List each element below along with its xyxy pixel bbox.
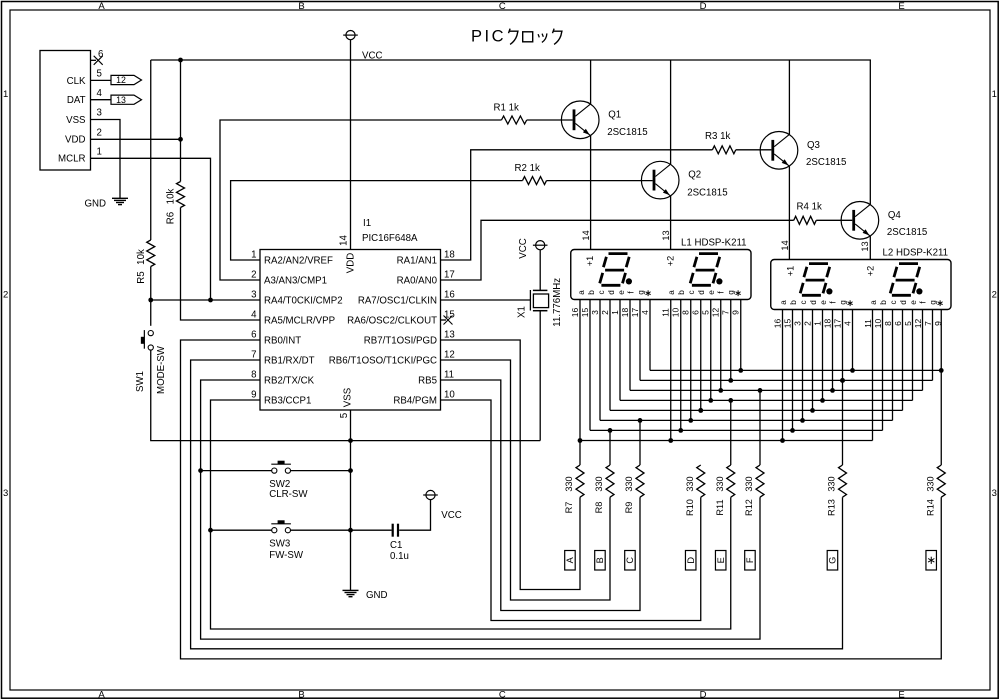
svg-text:+1: +1 — [585, 256, 595, 266]
svg-text:7: 7 — [721, 310, 731, 315]
svg-text:F: F — [745, 557, 755, 563]
svg-text:RA7/OSC1/CLKIN: RA7/OSC1/CLKIN — [358, 296, 437, 307]
power VCC xtal — [536, 241, 545, 250]
svg-text:12: 12 — [116, 75, 126, 85]
wire bus f to R12 — [759, 390, 761, 465]
junction SW2 VSS — [348, 468, 353, 473]
svg-text:R11: R11 — [715, 499, 725, 515]
wire RA2 to R2 — [231, 181, 523, 260]
svg-text:g: g — [838, 300, 847, 305]
wire VSS to ground — [91, 120, 121, 199]
svg-text:2: 2 — [992, 290, 997, 301]
power VCC top — [346, 30, 355, 39]
wire pin6 stub — [91, 59, 97, 61]
svg-text:13: 13 — [661, 230, 671, 240]
svg-text:MODE-SW: MODE-SW — [156, 345, 167, 394]
wire SW3 left — [211, 529, 272, 531]
svg-text:e: e — [819, 300, 828, 305]
wire Q1 emitter to L1 pin14 — [590, 136, 592, 250]
svg-text:+1: +1 — [786, 266, 796, 276]
svg-text:CLK: CLK — [67, 76, 86, 87]
svg-text:D: D — [700, 1, 707, 12]
display L1 HDSP-K211 — [571, 250, 751, 300]
svg-text:e: e — [909, 300, 918, 305]
svg-text:18: 18 — [620, 308, 630, 318]
svg-text:g: g — [726, 290, 735, 295]
labels L1 pin numbers — [570, 308, 741, 318]
wire RB1 col — [191, 360, 843, 649]
capacitor C1 — [392, 524, 394, 537]
svg-text:12: 12 — [913, 319, 923, 329]
wire RA0 to R4 — [441, 220, 794, 280]
junction bus a R7 — [578, 438, 583, 443]
svg-text:18: 18 — [822, 319, 832, 329]
svg-text:RA4/T0CKI/CMP2: RA4/T0CKI/CMP2 — [264, 296, 343, 307]
svg-text:10: 10 — [671, 308, 681, 318]
svg-text:10: 10 — [873, 319, 883, 329]
wire DAT pin4 — [91, 99, 112, 101]
switch SW1 — [148, 331, 153, 336]
svg-text:4: 4 — [640, 310, 650, 315]
svg-text:e: e — [707, 290, 716, 295]
svg-text:b: b — [879, 300, 888, 305]
junction R6 rail — [178, 58, 183, 63]
svg-text:17: 17 — [444, 270, 455, 281]
svg-text:X1: X1 — [516, 306, 527, 318]
svg-text:B: B — [298, 1, 304, 12]
wire SW1 to gnd rail — [151, 350, 540, 441]
switch SW2 — [272, 468, 277, 473]
junction bus b R8 — [608, 428, 613, 433]
wire segment bus d — [610, 409, 903, 411]
svg-text:R13: R13 — [827, 499, 837, 516]
svg-text:R2 1k: R2 1k — [515, 163, 540, 174]
wire Q2 emitter to L1 pin13 — [670, 196, 672, 250]
svg-text:RB2/TX/CK: RB2/TX/CK — [264, 376, 315, 387]
svg-text:R10: R10 — [685, 499, 695, 516]
wire RA4 net — [151, 299, 260, 301]
svg-text:g: g — [636, 290, 645, 295]
svg-text:PIC: PIC — [471, 27, 506, 45]
wire R4 to Q4 base — [816, 219, 852, 221]
svg-text:1: 1 — [812, 321, 822, 326]
svg-text:L1 HDSP-K211: L1 HDSP-K211 — [681, 238, 747, 249]
resistor R4 — [794, 216, 817, 224]
svg-text:R7: R7 — [564, 502, 574, 514]
resistor R12 — [756, 465, 764, 497]
svg-text:MCLR: MCLR — [58, 154, 85, 165]
resistor R6 — [177, 182, 185, 208]
wire VCC to C1 — [399, 500, 430, 531]
svg-text:330: 330 — [685, 476, 695, 491]
svg-text:VSS: VSS — [66, 115, 86, 126]
svg-text:2: 2 — [97, 128, 102, 139]
resistor R13 — [839, 465, 847, 497]
svg-text:Q1: Q1 — [608, 109, 621, 120]
svg-text:+2: +2 — [666, 256, 676, 266]
svg-text:17: 17 — [832, 319, 842, 329]
svg-text:R14: R14 — [925, 499, 935, 516]
svg-text:3: 3 — [97, 108, 102, 119]
junction RB3 SW3 — [208, 528, 213, 533]
svg-text:RB1/RX/DT: RB1/RX/DT — [264, 356, 315, 367]
wire A3 to R1 — [220, 120, 502, 280]
wire bus c to R9 — [639, 420, 641, 465]
svg-text:7: 7 — [251, 350, 256, 361]
svg-text:330: 330 — [827, 476, 837, 491]
svg-text:3: 3 — [992, 488, 997, 499]
port * — [926, 551, 937, 571]
connector CN1 — [40, 51, 91, 171]
wire segment bus a — [580, 440, 873, 442]
svg-text:5: 5 — [339, 413, 350, 418]
svg-text:2: 2 — [802, 321, 812, 326]
svg-text:E: E — [716, 557, 726, 563]
ground GND1 — [112, 197, 128, 199]
power VCC c1 — [426, 490, 435, 499]
junctions L2 digit1 — [780, 368, 855, 443]
svg-text:RA6/OSC2/CLKOUT: RA6/OSC2/CLKOUT — [347, 316, 437, 327]
svg-text:VSS: VSS — [343, 387, 354, 407]
wire bus b to R8 — [609, 430, 611, 465]
wire pin5 VSS down — [350, 410, 352, 590]
svg-text:d: d — [697, 290, 706, 295]
svg-text:RA1/AN1: RA1/AN1 — [397, 256, 437, 267]
svg-text:11.776MHz: 11.776MHz — [552, 278, 563, 327]
wire Q3 collector — [788, 60, 790, 134]
svg-text:16: 16 — [444, 290, 455, 301]
wire R2 to Q2 base — [547, 180, 653, 182]
wire X1 to gnd rail — [539, 311, 541, 441]
junction bus e R11 — [728, 398, 733, 403]
wire Q3 emitter to L2 pin14 — [788, 166, 790, 259]
svg-text:A3/AN3/CMP1: A3/AN3/CMP1 — [264, 276, 327, 287]
junction RB2 SW2 — [198, 468, 203, 473]
svg-text:c: c — [799, 300, 808, 304]
svg-text:6: 6 — [691, 310, 701, 315]
svg-text:E: E — [898, 689, 904, 700]
svg-text:8: 8 — [251, 370, 256, 381]
svg-text:Q3: Q3 — [807, 140, 820, 151]
svg-text:330: 330 — [744, 476, 754, 491]
wire R5 upper — [150, 60, 152, 240]
junction SW3 VSS — [348, 528, 353, 533]
svg-text:0.1u: 0.1u — [390, 551, 409, 562]
svg-text:3: 3 — [590, 310, 600, 315]
wire VDD pin2 — [91, 138, 181, 140]
wire R6 upper — [180, 60, 182, 182]
wire MCLR pin1 — [91, 158, 211, 300]
svg-text:3: 3 — [792, 321, 802, 326]
wire segment bus c — [600, 419, 893, 421]
svg-text:FW-SW: FW-SW — [269, 550, 304, 561]
svg-text:5: 5 — [701, 310, 711, 315]
svg-text:A: A — [98, 689, 105, 700]
wire SW2 left — [201, 470, 272, 472]
junction MCLR at RA4 net — [208, 298, 213, 303]
svg-text:c: c — [687, 290, 696, 294]
svg-text:RB3/CCP1: RB3/CCP1 — [264, 396, 311, 407]
wire RB3 col — [211, 400, 731, 629]
resistor R2 — [523, 177, 547, 185]
display L1 digit 2 — [699, 252, 718, 255]
svg-text:2SC1815: 2SC1815 — [687, 187, 727, 198]
svg-text:1: 1 — [97, 147, 102, 158]
svg-text:16: 16 — [570, 308, 580, 318]
wire SW2 right — [291, 470, 351, 472]
svg-text:2: 2 — [600, 310, 610, 315]
wire VCC rail top — [151, 59, 871, 61]
svg-text:10k: 10k — [136, 249, 147, 265]
svg-text:R3 1k: R3 1k — [705, 131, 730, 142]
svg-text:8: 8 — [883, 321, 893, 326]
svg-text:8: 8 — [681, 310, 691, 315]
display L2 digit 1 — [809, 262, 828, 265]
port A — [565, 551, 576, 571]
wire R3 to Q3 base — [736, 149, 772, 151]
svg-text:PIC16F648A: PIC16F648A — [362, 233, 418, 244]
svg-text:RB4/PGM: RB4/PGM — [393, 396, 437, 407]
svg-text:B: B — [298, 689, 304, 700]
junction VDD — [178, 137, 183, 142]
title PIC clock — [471, 27, 562, 45]
svg-text:12: 12 — [444, 350, 455, 361]
svg-text:DAT: DAT — [67, 95, 86, 106]
svg-text:330: 330 — [925, 476, 935, 491]
wire RB2 col — [201, 380, 760, 639]
labels L2 pin numbers — [772, 319, 943, 329]
wire SW1 upper — [150, 300, 152, 326]
wire Q4 emitter to L2 pin13 — [869, 236, 871, 259]
svg-text:3: 3 — [251, 290, 256, 301]
svg-text:+2: +2 — [866, 266, 876, 276]
wire L1 seg a to R7 — [579, 300, 581, 466]
svg-text:6: 6 — [893, 321, 903, 326]
chip left pin labels — [251, 250, 343, 407]
svg-text:13: 13 — [860, 241, 870, 251]
svg-text:7: 7 — [923, 321, 933, 326]
svg-text:VCC: VCC — [441, 510, 461, 521]
transistor Q3 — [760, 132, 798, 170]
svg-text:17: 17 — [630, 308, 640, 318]
wire RB7 loop to A — [441, 340, 581, 590]
svg-text:D: D — [700, 689, 707, 700]
resistor R14 — [937, 465, 945, 497]
wires L2 digit1 segs — [783, 310, 853, 466]
wire segment bus f — [630, 389, 923, 391]
no-connect pin 15 — [441, 319, 447, 321]
svg-text:R8: R8 — [594, 502, 604, 514]
svg-text:R9: R9 — [624, 502, 634, 514]
svg-text:R4 1k: R4 1k — [797, 202, 822, 213]
svg-text:4: 4 — [251, 310, 257, 321]
port D — [685, 551, 696, 571]
wire CLK pin5 — [91, 79, 112, 81]
svg-text:Q2: Q2 — [688, 170, 701, 181]
svg-text:11: 11 — [863, 319, 873, 328]
svg-text:A: A — [98, 1, 105, 12]
wire segment bus e — [620, 399, 913, 401]
wires L2 digit2 segs — [873, 310, 942, 466]
svg-text:1: 1 — [251, 250, 256, 261]
wire segment bus dp — [650, 369, 941, 371]
resistor R9 — [636, 465, 644, 497]
svg-text:C1: C1 — [390, 540, 402, 551]
svg-text:11: 11 — [444, 370, 454, 381]
connector pin numbers — [97, 49, 104, 158]
svg-text:16: 16 — [772, 319, 782, 329]
wire Q1 collector — [590, 60, 592, 104]
resistor R5 — [147, 240, 155, 267]
svg-text:G: G — [828, 557, 838, 564]
svg-text:2SC1815: 2SC1815 — [607, 127, 647, 138]
svg-text:RB6/T1OSO/T1CKI/PGC: RB6/T1OSO/T1CKI/PGC — [329, 356, 437, 367]
junction VSS gnd rail — [348, 438, 353, 443]
labels L1 segment letters — [577, 290, 741, 296]
svg-text:b: b — [587, 290, 596, 295]
svg-text:15: 15 — [580, 308, 590, 318]
svg-text:10k: 10k — [166, 189, 177, 205]
svg-text:A: A — [565, 556, 575, 563]
display L2 digit 2 — [899, 262, 918, 265]
svg-text:RB0/INT: RB0/INT — [264, 336, 301, 347]
svg-text:d: d — [899, 300, 908, 305]
svg-text:C: C — [625, 557, 635, 564]
wire RA1 to R3 — [441, 150, 713, 260]
svg-text:2: 2 — [251, 270, 256, 281]
resistor R8 — [606, 465, 614, 497]
wire VCC to xtal — [539, 250, 541, 291]
svg-text:R6: R6 — [166, 212, 177, 224]
wire Q4 collector — [869, 60, 871, 204]
junction bus d R10 — [698, 408, 703, 413]
svg-text:18: 18 — [444, 250, 455, 261]
svg-text:B: B — [595, 557, 605, 563]
switch SW3 — [272, 528, 277, 533]
wire RB6 loop to B — [441, 360, 611, 600]
connector pin names — [58, 76, 86, 165]
junction bus g R13 — [840, 378, 845, 383]
wire SW3 right — [291, 529, 392, 531]
wire segment bus g — [640, 379, 933, 381]
transistor Q1 — [561, 101, 599, 139]
svg-text:GND: GND — [366, 590, 388, 601]
transistor Q2 — [641, 161, 679, 199]
transistor Q4 — [841, 202, 879, 240]
svg-text:R12: R12 — [744, 499, 754, 516]
svg-text:a: a — [577, 290, 586, 295]
svg-text:d: d — [809, 300, 818, 305]
svg-text:RA0/AN0: RA0/AN0 — [397, 276, 438, 287]
svg-text:15: 15 — [782, 319, 792, 329]
wire bus e to R11 — [730, 400, 732, 465]
wire R5 lower — [150, 267, 152, 301]
svg-text:RB5: RB5 — [418, 376, 437, 387]
svg-text:c: c — [889, 300, 898, 304]
svg-text:14: 14 — [780, 240, 790, 250]
svg-text:GND: GND — [85, 198, 107, 209]
svg-text:4: 4 — [97, 88, 103, 99]
svg-text:g: g — [928, 300, 937, 305]
svg-text:Q4: Q4 — [888, 210, 902, 221]
resistor R3 — [712, 146, 735, 154]
junction bus f R12 — [758, 388, 763, 393]
svg-text:C: C — [499, 1, 506, 12]
svg-text:14: 14 — [581, 230, 591, 240]
junction bus c R9 — [638, 418, 643, 423]
op-amp I1 PIC16F648A box — [260, 250, 441, 411]
wire R6 to RA5 — [181, 208, 261, 321]
svg-text:e: e — [617, 290, 626, 295]
svg-text:VCC: VCC — [518, 238, 529, 258]
svg-text:RB7/T1OSI/PGD: RB7/T1OSI/PGD — [364, 336, 437, 347]
svg-text:b: b — [789, 300, 798, 305]
resistor R7 — [576, 465, 584, 497]
svg-text:13: 13 — [116, 95, 126, 105]
crystal X1 — [529, 290, 531, 311]
labels L2 segment letters — [779, 300, 943, 306]
no-connect pin 6 — [94, 56, 103, 65]
svg-text:VDD: VDD — [65, 135, 85, 146]
port B — [595, 551, 606, 571]
resistor R11 — [727, 465, 735, 497]
svg-text:6: 6 — [251, 330, 256, 341]
svg-text:a: a — [667, 290, 676, 295]
svg-text:330: 330 — [624, 476, 634, 491]
svg-text:11: 11 — [661, 308, 671, 317]
svg-text:RA5/MCLR/VPP: RA5/MCLR/VPP — [264, 316, 335, 327]
svg-text:1: 1 — [610, 310, 620, 315]
svg-text:D: D — [686, 557, 696, 564]
svg-text:12: 12 — [711, 308, 721, 318]
port 13 — [111, 95, 142, 105]
wires L1 digit1 segs b-dp — [590, 300, 650, 431]
junctions L1 digit2 — [668, 368, 743, 443]
svg-text:C: C — [499, 689, 506, 700]
svg-text:1: 1 — [992, 89, 997, 100]
wire R1 to Q1 base — [527, 119, 573, 121]
svg-text:a: a — [779, 300, 788, 305]
svg-text:c: c — [597, 290, 606, 294]
display L2 HDSP-K211 — [771, 260, 951, 310]
wire RB5 loop to C — [441, 380, 641, 611]
svg-text:1: 1 — [3, 89, 8, 100]
junction R5-SW1 — [148, 298, 153, 303]
port G — [827, 551, 838, 571]
wire RA7 to X1 — [441, 299, 531, 301]
svg-text:10: 10 — [444, 390, 455, 401]
svg-text:CLR-SW: CLR-SW — [269, 489, 308, 500]
svg-text:5: 5 — [97, 69, 102, 80]
svg-text:a: a — [869, 300, 878, 305]
svg-text:2: 2 — [3, 290, 8, 301]
svg-text:b: b — [677, 290, 686, 295]
wire segment bus b — [590, 429, 883, 431]
resistor R1 — [502, 116, 527, 124]
svg-text:R1 1k: R1 1k — [494, 103, 519, 114]
svg-text:d: d — [607, 290, 616, 295]
wire VCC to pin14 — [350, 40, 352, 250]
svg-text:3: 3 — [3, 488, 8, 499]
ground GND2 — [343, 589, 359, 591]
resistor R10 — [697, 465, 705, 497]
port C — [625, 551, 636, 571]
junction bus dp R14 — [939, 368, 944, 373]
svg-text:14: 14 — [338, 235, 349, 246]
svg-text:I1: I1 — [363, 218, 371, 229]
svg-text:9: 9 — [731, 310, 741, 315]
wire RB0 col — [181, 340, 942, 659]
